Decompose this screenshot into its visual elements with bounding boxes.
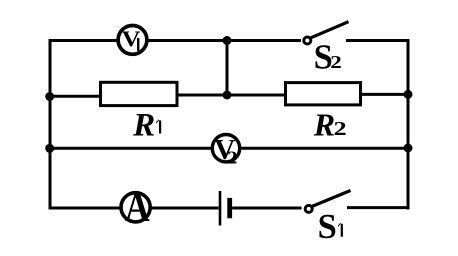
node: right rail / V2 row junction [404, 144, 413, 153]
wire: V2 row, left rail to V2 [49, 147, 213, 150]
svg-text:2: 2 [334, 118, 347, 140]
wire: right rail [407, 39, 410, 210]
switch S1: hinge and lever [305, 191, 350, 213]
wire: top row, S2 to right rail [346, 39, 410, 42]
svg-text:R: R [313, 107, 335, 143]
wire: top row, V1 to S2 [147, 39, 301, 42]
node: right rail / resistor row junction [404, 90, 413, 99]
svg-text:2: 2 [330, 53, 342, 72]
svg-text:A: A [125, 185, 150, 231]
wire: V2 row, V2 to right rail [240, 147, 410, 150]
wire: resistor row, R2 to right rail [360, 93, 408, 96]
resistor R2 [286, 83, 361, 105]
node: left rail / V2 row junction [45, 144, 54, 153]
svg-text:2: 2 [227, 149, 237, 168]
battery: long (positive) plate [219, 191, 222, 226]
wire: bottom row, S1 to right rail [347, 206, 410, 209]
wire: bottom row, left rail to ammeter [49, 207, 122, 210]
ammeter A [121, 185, 150, 231]
node: junction of top row and center branch [223, 36, 232, 45]
node: resistor row / center branch junction [223, 91, 232, 100]
label R2 [313, 107, 347, 143]
svg-text:R: R [132, 108, 155, 144]
switch S2: hinge and lever [304, 22, 349, 44]
label S2 [314, 38, 342, 76]
wire: bottom row, battery to S1 [232, 207, 301, 210]
wire: resistor row, left rail to R1 [49, 95, 102, 98]
node: left rail / resistor row junction [45, 92, 54, 101]
wire: bottom row, ammeter to battery [151, 207, 219, 210]
resistor R1 [101, 82, 178, 105]
voltmeter V1 [118, 26, 147, 55]
battery: short (negative) plate [227, 198, 232, 218]
wire: top row, left rail to V1 [49, 39, 119, 42]
wire: resistor row, R1 to R2 [177, 94, 286, 97]
wire: vertical connector between top row and resistor row [226, 41, 229, 96]
label S1 [318, 208, 343, 246]
svg-text:S: S [318, 208, 337, 246]
voltmeter V2 [212, 134, 239, 168]
wire: left rail [49, 39, 52, 210]
label R1 [132, 108, 161, 144]
